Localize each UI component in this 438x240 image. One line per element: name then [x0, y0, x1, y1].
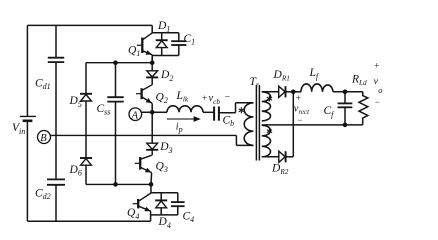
svg-text:o: o — [378, 85, 382, 95]
svg-text:B: B — [40, 133, 47, 144]
svg-text:−: − — [225, 93, 230, 103]
svg-text:A: A — [131, 110, 139, 121]
svg-text:−: − — [375, 97, 380, 107]
svg-text:+: + — [296, 94, 301, 104]
svg-text:+: + — [374, 61, 379, 71]
svg-text:+: + — [202, 94, 207, 104]
svg-text:−: − — [297, 115, 302, 125]
